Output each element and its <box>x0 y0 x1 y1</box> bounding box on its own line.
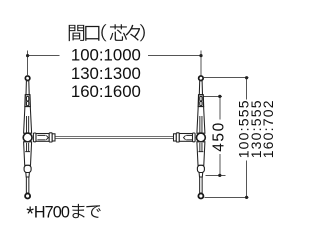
height dim: bottom extension from right foot <box>205 197 249 199</box>
hub circle <box>197 133 206 142</box>
neck <box>199 173 203 178</box>
svg-text:100:1000: 100:1000 <box>71 45 141 64</box>
450 dim dot top <box>218 95 221 98</box>
crossbar left lever collar <box>49 133 52 142</box>
kanji 間 (header) <box>69 25 85 41</box>
clamp collar capsule <box>197 165 204 172</box>
rod <box>200 177 203 193</box>
hiragana ま <box>72 204 85 218</box>
crossbar left box with slot <box>36 134 49 142</box>
pivot circle (top of leg) <box>25 76 30 81</box>
svg-text:160:1600: 160:1600 <box>71 82 141 101</box>
joint segment with slot <box>198 95 203 107</box>
height dim dot top <box>245 76 248 79</box>
svg-text:H700: H700 <box>34 204 70 222</box>
extension line above right leg <box>200 51 202 76</box>
crossbar collar (left hub side) <box>33 133 36 142</box>
kanji 口 (header) <box>85 26 99 41</box>
svg-text:130:1300: 130:1300 <box>71 64 141 83</box>
450 dim dot bottom <box>218 174 221 177</box>
foot ball <box>198 194 203 199</box>
crossbar left end box <box>52 134 55 141</box>
upper stem <box>26 81 29 95</box>
height dimension line (broken by text) <box>246 78 248 198</box>
upper spindle with inner slot <box>197 107 205 134</box>
hub circle <box>23 133 32 142</box>
height dim: top extension from right pivot <box>204 77 249 79</box>
foot ball <box>25 194 30 199</box>
crossbar collar (right hub side) <box>193 133 196 142</box>
height dim dot bottom <box>245 196 248 199</box>
crossbar right end box <box>174 134 177 141</box>
iteration mark 々 <box>126 25 140 41</box>
450 dim: bottom extension <box>206 175 226 177</box>
crossbar right lever collar <box>176 133 179 142</box>
fullwidth open paren （ <box>101 24 106 41</box>
joint segment with slot <box>25 95 30 107</box>
upper stem <box>199 81 202 95</box>
svg-text:160:702: 160:702 <box>260 99 276 158</box>
lower spindle with inner slot <box>24 142 32 166</box>
top width dimension line (right segment) <box>148 55 201 57</box>
dimension dot left <box>26 54 29 57</box>
neck <box>26 173 30 178</box>
left leg assembly <box>23 76 32 199</box>
450 dimension line (broken by text) <box>219 97 221 176</box>
kanji 芯 <box>110 24 127 41</box>
top width dimension line (left segment) <box>28 55 60 57</box>
right leg assembly (mirrored) <box>197 76 206 199</box>
lower spindle with inner slot <box>197 142 205 166</box>
crossbar right box with slot <box>179 134 192 142</box>
pivot circle (top of leg) <box>199 76 204 81</box>
dimension dot right <box>199 54 202 57</box>
clamp collar capsule <box>24 165 31 172</box>
450 dim: top extension <box>204 96 222 98</box>
fullwidth close paren ） <box>140 24 145 41</box>
extension line above left leg <box>27 51 29 76</box>
rod <box>26 177 29 193</box>
upper spindle with inner slot <box>24 107 32 134</box>
crossbar tube <box>55 137 172 139</box>
svg-text:450: 450 <box>210 121 227 152</box>
hiragana で <box>86 205 100 218</box>
